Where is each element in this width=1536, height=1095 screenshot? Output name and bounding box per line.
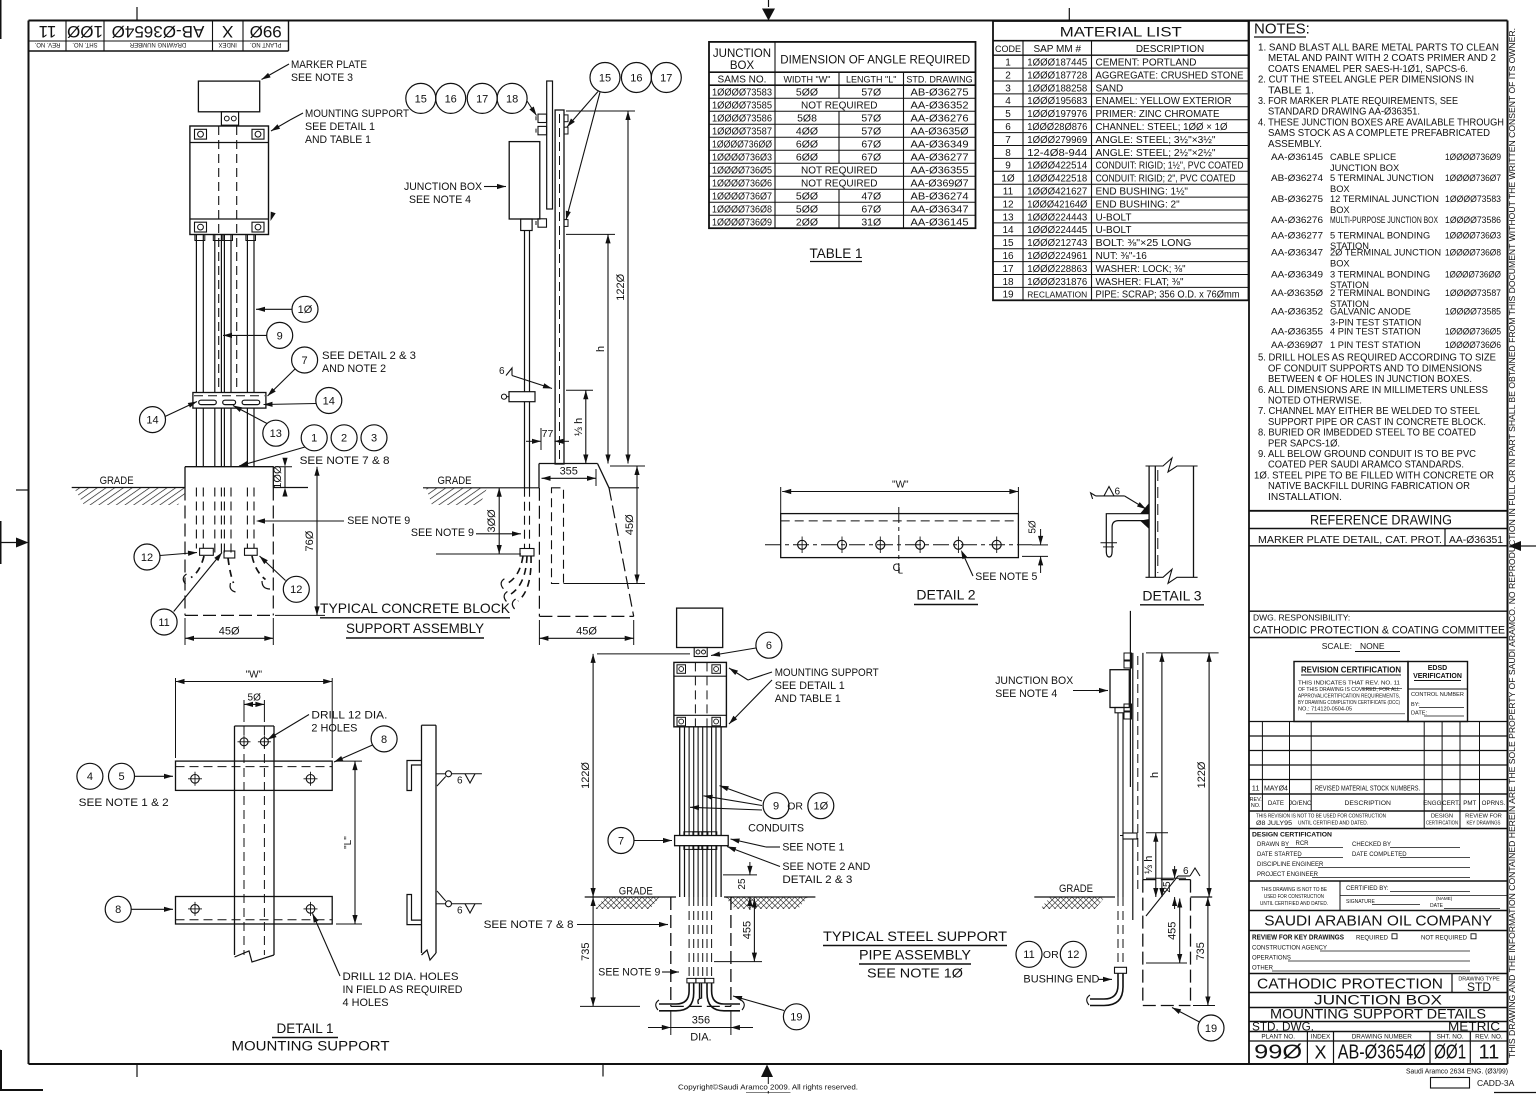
- svg-text:AA-Ø36277: AA-Ø36277: [911, 152, 969, 164]
- svg-text:COATS ENAMEL PER SAES-H-1Ø1, S: COATS ENAMEL PER SAES-H-1Ø1, SAPCS-6.: [1268, 64, 1468, 75]
- svg-text:PER SAPCS-1Ø.: PER SAPCS-1Ø.: [1268, 438, 1340, 449]
- svg-text:NOTED OTHERWISE.: NOTED OTHERWISE.: [1268, 396, 1362, 407]
- svg-text:USED FOR CONSTRUCTION: USED FOR CONSTRUCTION: [1264, 894, 1324, 900]
- svg-text:OPERATIONS: OPERATIONS: [1252, 956, 1291, 962]
- svg-text:UNTIL CERTIFIED AND DATED.: UNTIL CERTIFIED AND DATED.: [1298, 821, 1368, 827]
- svg-text:CONDUITS: CONDUITS: [748, 823, 804, 835]
- svg-text:MOUNTING SUPPORT: MOUNTING SUPPORT: [232, 1039, 390, 1054]
- svg-text:8: 8: [115, 904, 121, 916]
- svg-text:h: h: [1149, 772, 1161, 778]
- svg-text:9: 9: [1005, 161, 1011, 172]
- svg-text:5ØØ: 5ØØ: [796, 87, 818, 99]
- svg-text:14: 14: [146, 414, 158, 426]
- svg-text:CATHODIC PROTECTION & COATI: CATHODIC PROTECTION & COATING COMMITTEE: [1253, 625, 1505, 637]
- svg-text:355: 355: [560, 465, 578, 477]
- svg-text:AA-Ø36352: AA-Ø36352: [1271, 307, 1323, 317]
- svg-text:VERIFICATION: VERIFICATION: [1413, 673, 1462, 680]
- svg-text:DRILL 12 DIA.: DRILL 12 DIA.: [311, 710, 387, 722]
- svg-text:455: 455: [741, 921, 753, 939]
- svg-text:SEE NOTE 3: SEE NOTE 3: [291, 72, 353, 84]
- svg-text:AND NOTE 2: AND NOTE 2: [322, 363, 386, 375]
- svg-text:CHANNEL: STEEL; 1ØØ × 1Ø: CHANNEL: STEEL; 1ØØ × 1Ø: [1096, 122, 1228, 133]
- svg-text:1ØØØØ73586: 1ØØØØ73586: [712, 113, 772, 125]
- svg-text:SEE NOTE 9: SEE NOTE 9: [598, 967, 660, 979]
- svg-text:THIS INDICATES THAT REV. NO.: THIS INDICATES THAT REV. NO. 11: [1298, 680, 1400, 686]
- svg-text:NOTES:: NOTES:: [1254, 21, 1310, 38]
- svg-text:PMT: PMT: [1463, 800, 1476, 807]
- svg-text:UNTIL CERTIFIED AND DATED.: UNTIL CERTIFIED AND DATED.: [1260, 901, 1328, 907]
- svg-text:DESCRIPTION: DESCRIPTION: [1344, 800, 1391, 807]
- svg-text:5: 5: [1005, 109, 1011, 120]
- svg-text:5ØØ: 5ØØ: [796, 191, 818, 203]
- svg-text:SEE NOTE 1 & 2: SEE NOTE 1 & 2: [79, 797, 169, 809]
- svg-text:CATHODIC PROTECTION: CATHODIC PROTECTION: [1257, 976, 1443, 993]
- svg-text:CHECKED BY: CHECKED BY: [1352, 842, 1391, 848]
- svg-text:1ØØØ224445: 1ØØØ224445: [1027, 224, 1087, 236]
- svg-text:6: 6: [499, 366, 505, 377]
- svg-text:5Ø: 5Ø: [1028, 520, 1039, 534]
- svg-text:1ØØØØ736Ø8: 1ØØØØ736Ø8: [1445, 248, 1501, 258]
- svg-text:SUPPORT PIPE OR CAST IN CONCRE: SUPPORT PIPE OR CAST IN CONCRETE BLOCK.: [1268, 417, 1486, 428]
- svg-text:1ØØØ188258: 1ØØØ188258: [1027, 82, 1087, 94]
- svg-text:2. CUT THE STEEL ANGLE PER DIM: 2. CUT THE STEEL ANGLE PER DIMENSIONS IN: [1258, 75, 1474, 86]
- svg-text:AA-Ø36349: AA-Ø36349: [1271, 270, 1323, 280]
- svg-text:4 HOLES: 4 HOLES: [343, 997, 389, 1009]
- svg-text:REV. NO.: REV. NO.: [34, 41, 60, 47]
- svg-text:NO.: 714120-0504-05: NO.: 714120-0504-05: [1298, 707, 1352, 713]
- svg-text:25: 25: [737, 878, 748, 890]
- svg-text:1ØØØ231876: 1ØØØ231876: [1027, 276, 1087, 288]
- svg-text:5 TERMINAL BONDING: 5 TERMINAL BONDING: [1330, 230, 1430, 240]
- svg-text:COATED PER SAUDI ARAMCO STANDA: COATED PER SAUDI ARAMCO STANDARDS.: [1268, 460, 1464, 471]
- svg-text:MOUNTING SUPPORT: MOUNTING SUPPORT: [305, 108, 409, 120]
- svg-text:PIPE: SCRAP; 356 O.D. x 76Ømm: PIPE: SCRAP; 356 O.D. x 76Ømm: [1096, 290, 1240, 301]
- svg-text:12: 12: [1067, 949, 1079, 961]
- svg-text:INDEX: INDEX: [1311, 1034, 1331, 1041]
- svg-text:1ØØ: 1ØØ: [272, 465, 284, 489]
- svg-text:AA-Ø36347: AA-Ø36347: [1271, 248, 1323, 258]
- svg-text:12 TERMINAL JUNCTION: 12 TERMINAL JUNCTION: [1330, 194, 1439, 204]
- svg-text:THIS DRAWING IS NOT TO BE: THIS DRAWING IS NOT TO BE: [1261, 887, 1327, 893]
- svg-text:THIS DRAWING AND THE INFORMATI: THIS DRAWING AND THE INFORMATION CONTAIN…: [1507, 28, 1517, 1058]
- svg-text:JUNCTION BOX: JUNCTION BOX: [995, 675, 1074, 687]
- svg-text:7: 7: [302, 355, 308, 367]
- svg-text:7: 7: [1005, 135, 1011, 146]
- svg-text:1ØØØ228863: 1ØØØ228863: [1027, 263, 1087, 275]
- svg-text:1ØØØØ73585: 1ØØØØ73585: [1445, 307, 1501, 317]
- svg-text:1ØØØØ736Ø7: 1ØØØØ736Ø7: [1445, 173, 1501, 183]
- svg-text:2: 2: [341, 433, 347, 445]
- svg-text:SHT. NO.: SHT. NO.: [1437, 1034, 1464, 1041]
- svg-text:TABLE 1.: TABLE 1.: [1268, 85, 1314, 96]
- svg-text:DESIGN: DESIGN: [1431, 814, 1453, 820]
- svg-text:DATE:: DATE:: [1411, 711, 1428, 717]
- svg-text:CONSTRUCTION AGENCY: CONSTRUCTION AGENCY: [1252, 946, 1327, 952]
- svg-text:SAND: SAND: [1096, 83, 1124, 94]
- svg-text:AA-Ø36347: AA-Ø36347: [911, 204, 969, 216]
- svg-text:DRAWING NUMBER: DRAWING NUMBER: [129, 41, 186, 47]
- svg-text:14: 14: [323, 395, 335, 407]
- svg-text:GALVANIC ANODE: GALVANIC ANODE: [1330, 307, 1411, 317]
- svg-text:MOUNTING SUPPORT: MOUNTING SUPPORT: [775, 667, 879, 679]
- svg-text:U-BOLT: U-BOLT: [1096, 212, 1132, 223]
- svg-text:1ØØ: 1ØØ: [67, 22, 103, 41]
- svg-text:2 HOLES: 2 HOLES: [311, 723, 357, 735]
- svg-text:11: 11: [1023, 949, 1034, 961]
- svg-text:DRAWN BY: DRAWN BY: [1257, 842, 1289, 848]
- svg-text:OR: OR: [787, 801, 803, 813]
- svg-text:BOX: BOX: [1330, 258, 1350, 268]
- svg-text:AA-Ø36276: AA-Ø36276: [1271, 215, 1323, 225]
- svg-text:RECLAMATION: RECLAMATION: [1027, 290, 1087, 300]
- svg-text:ENAMEL: YELLOW EXTERIOR: ENAMEL: YELLOW EXTERIOR: [1096, 96, 1232, 107]
- svg-text:BOLT: ⅜"×25 LONG: BOLT: ⅜"×25 LONG: [1096, 238, 1192, 249]
- svg-text:NONE: NONE: [1360, 641, 1385, 651]
- svg-text:SEE NOTE 4: SEE NOTE 4: [995, 688, 1057, 700]
- svg-text:3ØØ: 3ØØ: [486, 509, 498, 533]
- svg-text:25: 25: [1162, 881, 1173, 893]
- svg-text:45Ø: 45Ø: [219, 625, 240, 637]
- svg-text:BUSHING END: BUSHING END: [1023, 974, 1099, 986]
- svg-text:67Ø: 67Ø: [861, 204, 881, 216]
- svg-text:OR: OR: [1043, 949, 1059, 961]
- svg-text:1ØØØØ736Ø3: 1ØØØØ736Ø3: [712, 152, 772, 164]
- svg-text:4ØØ: 4ØØ: [796, 126, 818, 138]
- svg-text:SEE NOTE 7 & 8: SEE NOTE 7 & 8: [484, 919, 574, 931]
- svg-text:DATE STARTED: DATE STARTED: [1257, 852, 1302, 858]
- svg-text:U-BOLT: U-BOLT: [1096, 225, 1132, 236]
- svg-text:PLANT NO.: PLANT NO.: [250, 41, 282, 47]
- svg-text:MAYØ4: MAYØ4: [1264, 786, 1288, 793]
- svg-text:THIS REVISION IS NOT TO BE USE: THIS REVISION IS NOT TO BE USED FOR CONS…: [1256, 814, 1386, 820]
- svg-text:4: 4: [87, 771, 93, 783]
- svg-text:57Ø: 57Ø: [861, 113, 881, 125]
- svg-text:GRADE: GRADE: [619, 886, 653, 898]
- svg-text:1: 1: [1005, 58, 1011, 69]
- svg-text:1ØØØ224443: 1ØØØ224443: [1027, 211, 1087, 223]
- svg-text:WASHER: LOCK; ⅜": WASHER: LOCK; ⅜": [1096, 264, 1186, 275]
- svg-text:1ØØØ279969: 1ØØØ279969: [1027, 134, 1087, 146]
- svg-text:CONTROL NUMBER: CONTROL NUMBER: [1411, 692, 1464, 698]
- svg-text:Saudi Aramco 2634 ENG. (Ø3/99): Saudi Aramco 2634 ENG. (Ø3/99): [1406, 1067, 1508, 1076]
- svg-text:5ØØ: 5ØØ: [796, 204, 818, 216]
- svg-text:L: L: [898, 566, 903, 576]
- svg-text:REV. NO.: REV. NO.: [1475, 1034, 1503, 1041]
- svg-text:9. ALL BELOW GROUND CONDUIT IS: 9. ALL BELOW GROUND CONDUIT IS TO BE PVC: [1258, 449, 1476, 460]
- svg-text:OF THIS DRAWING IS COVERED, FO: OF THIS DRAWING IS COVERED, FOR ALL: [1298, 687, 1400, 693]
- svg-text:IN FIELD AS REQUIRED: IN FIELD AS REQUIRED: [343, 984, 463, 996]
- svg-text:AGGREGATE: CRUSHED STONE: AGGREGATE: CRUSHED STONE: [1096, 70, 1244, 81]
- svg-text:15: 15: [415, 93, 427, 105]
- svg-text:122Ø: 122Ø: [1196, 761, 1208, 788]
- svg-text:MARKER PLATE: MARKER PLATE: [291, 59, 367, 71]
- svg-text:19: 19: [1205, 1023, 1217, 1035]
- svg-text:4: 4: [1005, 96, 1011, 107]
- svg-text:12: 12: [290, 584, 302, 596]
- svg-text:TYPICAL STEEL SUPPORT: TYPICAL STEEL SUPPORT: [823, 928, 1007, 944]
- svg-text:1ØØØ187728: 1ØØØ187728: [1027, 69, 1087, 81]
- svg-text:1ØØØ422514: 1ØØØ422514: [1027, 160, 1087, 172]
- svg-text:PRIMER: ZINC CHROMATE: PRIMER: ZINC CHROMATE: [1096, 109, 1220, 120]
- svg-text:GRADE: GRADE: [438, 475, 472, 487]
- svg-text:15: 15: [1002, 238, 1014, 249]
- svg-text:1ØØØØ736Ø6: 1ØØØØ736Ø6: [712, 178, 772, 190]
- svg-text:DETAIL 2 & 3: DETAIL 2 & 3: [782, 874, 852, 886]
- svg-text:1 PIN TEST STATION: 1 PIN TEST STATION: [1330, 340, 1421, 350]
- svg-text:WIDTH "W": WIDTH "W": [784, 74, 831, 84]
- svg-text:"W": "W": [892, 480, 909, 491]
- svg-text:SEE NOTE 4: SEE NOTE 4: [409, 194, 471, 206]
- svg-text:3: 3: [1005, 83, 1011, 94]
- svg-text:77: 77: [542, 428, 554, 440]
- svg-text:SHT. NO.: SHT. NO.: [72, 41, 98, 47]
- svg-text:GRADE: GRADE: [1059, 883, 1093, 895]
- svg-text:1ØØØØ73583: 1ØØØØ73583: [712, 87, 772, 99]
- svg-text:ANGLE: STEEL; 3½"×3½": ANGLE: STEEL; 3½"×3½": [1096, 135, 1216, 146]
- svg-text:1ØØØ28Ø876: 1ØØØ28Ø876: [1027, 121, 1087, 133]
- svg-text:SEE DETAIL 1: SEE DETAIL 1: [775, 680, 845, 692]
- svg-text:SEE NOTE 7 & 8: SEE NOTE 7 & 8: [300, 455, 390, 467]
- svg-text:6: 6: [457, 906, 463, 917]
- svg-text:AA-Ø36145: AA-Ø36145: [1271, 152, 1323, 162]
- svg-text:NOT REQUIRED: NOT REQUIRED: [801, 179, 878, 190]
- svg-text:CABLE SPLICE: CABLE SPLICE: [1330, 152, 1396, 162]
- svg-text:DETAIL 1: DETAIL 1: [276, 1021, 333, 1036]
- svg-text:REVISED MATERIAL STOCK NUMBERS: REVISED MATERIAL STOCK NUMBERS.: [1315, 786, 1420, 793]
- svg-text:GRADE: GRADE: [100, 475, 134, 487]
- svg-text:AB-Ø36275: AB-Ø36275: [1271, 194, 1323, 204]
- svg-text:REVIEW FOR: REVIEW FOR: [1465, 814, 1502, 820]
- svg-text:h: h: [595, 346, 607, 352]
- svg-text:ENGG.: ENGG.: [1423, 800, 1443, 807]
- svg-text:AA-Ø36351: AA-Ø36351: [1449, 534, 1503, 546]
- svg-text:5: 5: [118, 771, 124, 783]
- svg-text:1Ø: 1Ø: [1001, 174, 1015, 185]
- svg-text:11: 11: [1252, 784, 1260, 793]
- svg-text:REFERENCE DRAWING: REFERENCE DRAWING: [1310, 512, 1452, 527]
- svg-text:57Ø: 57Ø: [861, 126, 881, 138]
- svg-text:16: 16: [630, 72, 642, 84]
- svg-text:13: 13: [270, 428, 282, 440]
- svg-text:47Ø: 47Ø: [861, 191, 881, 203]
- svg-text:18: 18: [506, 93, 518, 105]
- svg-text:X: X: [222, 22, 233, 41]
- svg-text:8. BURIED OR IMBEDDED STEEL TO: 8. BURIED OR IMBEDDED STEEL TO BE COATED: [1258, 428, 1476, 439]
- svg-text:DIA.: DIA.: [690, 1031, 711, 1043]
- svg-text:REQUIRED: REQUIRED: [1356, 935, 1389, 942]
- svg-text:AA-Ø36355: AA-Ø36355: [911, 165, 969, 177]
- svg-text:1Ø: 1Ø: [813, 801, 828, 813]
- svg-text:45Ø: 45Ø: [576, 625, 597, 637]
- svg-text:1ØØØØ736Ø3: 1ØØØØ736Ø3: [1445, 230, 1501, 240]
- svg-text:6ØØ: 6ØØ: [796, 139, 818, 151]
- svg-text:7. CHANNEL MAY EITHER BE WELDE: 7. CHANNEL MAY EITHER BE WELDED TO STEEL: [1258, 406, 1481, 417]
- svg-text:11: 11: [39, 22, 57, 41]
- svg-text:JUNCTION: JUNCTION: [713, 48, 771, 60]
- svg-text:17: 17: [1002, 264, 1014, 275]
- svg-text:5Ø: 5Ø: [248, 692, 262, 703]
- svg-text:BOX: BOX: [1330, 205, 1350, 215]
- svg-text:NUT: ⅜"-16: NUT: ⅜"-16: [1096, 251, 1148, 262]
- svg-text:99Ø: 99Ø: [1254, 1042, 1302, 1064]
- svg-text:CODE: CODE: [995, 44, 1021, 54]
- svg-text:AB-Ø3654Ø: AB-Ø3654Ø: [1338, 1042, 1426, 1064]
- svg-text:BOX: BOX: [730, 60, 755, 72]
- svg-text:1ØØØ421627: 1ØØØ421627: [1027, 186, 1087, 198]
- svg-text:12: 12: [1002, 199, 1014, 210]
- svg-text:1ØØØØ736Ø9: 1ØØØØ736Ø9: [712, 217, 772, 229]
- svg-text:BETWEEN ¢ OF HOLES IN JUNCTION: BETWEEN ¢ OF HOLES IN JUNCTION BOXES.: [1268, 374, 1472, 385]
- svg-text:CADD-3A: CADD-3A: [1477, 1078, 1515, 1088]
- svg-text:SUPPORT ASSEMBLY: SUPPORT ASSEMBLY: [346, 620, 485, 636]
- svg-text:NO.: NO.: [1251, 803, 1261, 809]
- svg-text:6: 6: [1005, 122, 1011, 133]
- svg-text:1ØØØØ736ØØ: 1ØØØØ736ØØ: [1445, 270, 1501, 280]
- svg-text:356: 356: [692, 1014, 710, 1026]
- svg-text:1ØØØØ736Ø6: 1ØØØØ736Ø6: [1445, 340, 1501, 350]
- svg-text:KEY DRAWINGS: KEY DRAWINGS: [1467, 821, 1501, 827]
- svg-text:SAUDI ARABIAN OIL COMPANY: SAUDI ARABIAN OIL COMPANY: [1264, 914, 1492, 930]
- svg-text:REVISION CERTIFICATION: REVISION CERTIFICATION: [1301, 666, 1401, 675]
- svg-text:16: 16: [445, 93, 457, 105]
- svg-text:735: 735: [1195, 942, 1207, 960]
- svg-text:AA-Ø36349: AA-Ø36349: [911, 139, 969, 151]
- svg-text:ØØ1: ØØ1: [1434, 1042, 1466, 1064]
- svg-text:13: 13: [1002, 212, 1014, 223]
- svg-text:STANDARD DRAWING AA-Ø36351.: STANDARD DRAWING AA-Ø36351.: [1268, 107, 1420, 118]
- svg-text:11: 11: [1003, 187, 1014, 198]
- svg-text:NATIVE BACKFILL DURING FABRICA: NATIVE BACKFILL DURING FABRICATION OR: [1268, 481, 1470, 492]
- svg-text:7: 7: [618, 835, 624, 847]
- svg-text:DESIGN CERTIFICATION: DESIGN CERTIFICATION: [1252, 832, 1332, 839]
- svg-text:18: 18: [1002, 277, 1014, 288]
- svg-text:DWG. RESPONSIBILITY:: DWG. RESPONSIBILITY:: [1253, 613, 1350, 623]
- svg-text:15: 15: [599, 72, 611, 84]
- svg-text:AA-Ø36352: AA-Ø36352: [911, 100, 969, 112]
- svg-text:SEE NOTE 9: SEE NOTE 9: [347, 515, 410, 527]
- svg-text:END BUSHING: 1½": END BUSHING: 1½": [1096, 187, 1189, 198]
- svg-text:AB-Ø36275: AB-Ø36275: [911, 87, 969, 99]
- svg-text:67Ø: 67Ø: [861, 139, 881, 151]
- svg-text:9: 9: [773, 801, 779, 813]
- svg-text:17: 17: [660, 72, 672, 84]
- svg-text:SEE NOTE 5: SEE NOTE 5: [975, 571, 1037, 583]
- svg-text:6. ALL DIMENSIONS ARE IN MILLI: 6. ALL DIMENSIONS ARE IN MILLIMETERS UNL…: [1258, 385, 1488, 396]
- svg-text:99Ø: 99Ø: [250, 22, 282, 41]
- svg-text:AB-Ø36274: AB-Ø36274: [1271, 173, 1323, 183]
- svg-text:Ø8 JULY95: Ø8 JULY95: [1256, 820, 1292, 827]
- svg-text:1ØØØ197976: 1ØØØ197976: [1027, 108, 1087, 120]
- svg-text:455: 455: [1167, 922, 1179, 940]
- svg-text:WASHER: FLAT; ⅜": WASHER: FLAT; ⅜": [1096, 277, 1184, 288]
- svg-text:AB-Ø36274: AB-Ø36274: [911, 191, 969, 203]
- svg-text:1ØØØØ73587: 1ØØØØ73587: [1445, 288, 1501, 298]
- svg-text:17: 17: [476, 93, 488, 105]
- svg-text:3 TERMINAL BONDING: 3 TERMINAL BONDING: [1330, 270, 1430, 280]
- svg-text:67Ø: 67Ø: [861, 152, 881, 164]
- svg-text:⅓ h: ⅓ h: [1143, 856, 1155, 874]
- svg-text:5Ø8: 5Ø8: [797, 113, 817, 125]
- svg-text:1Ø: 1Ø: [298, 304, 313, 316]
- svg-text:8: 8: [381, 734, 387, 746]
- svg-text:DRAWING NUMBER: DRAWING NUMBER: [1352, 1034, 1413, 1041]
- svg-text:CONDUIT: RIGID; 2", PVC COATED: CONDUIT: RIGID; 2", PVC COATED: [1096, 174, 1236, 185]
- svg-text:DRILL 12 DIA. HOLES: DRILL 12 DIA. HOLES: [343, 971, 459, 983]
- svg-text:END BUSHING: 2": END BUSHING: 2": [1096, 199, 1181, 210]
- svg-text:LENGTH "L": LENGTH "L": [846, 74, 896, 84]
- svg-text:AA-Ø3635Ø: AA-Ø3635Ø: [911, 126, 969, 138]
- svg-text:REVIEW FOR KEY DRAWINGS: REVIEW FOR KEY DRAWINGS: [1252, 935, 1344, 942]
- svg-text:1: 1: [311, 433, 317, 445]
- svg-text:1. SAND BLAST ALL BARE METAL P: 1. SAND BLAST ALL BARE METAL PARTS TO CL…: [1258, 43, 1499, 54]
- svg-text:NOT REQUIRED: NOT REQUIRED: [801, 166, 878, 177]
- svg-text:SAMS STOCK AS A COMPLETE PREF: SAMS STOCK AS A COMPLETE PREFABRICATED: [1268, 128, 1490, 139]
- svg-text:STD. DRAWING: STD. DRAWING: [906, 74, 972, 84]
- svg-text:MOUNTING SUPPORT DETAILS: MOUNTING SUPPORT DETAILS: [1270, 1006, 1486, 1022]
- svg-text:MULTI-PURPOSE JUNCTION BOX: MULTI-PURPOSE JUNCTION BOX: [1330, 215, 1438, 225]
- svg-text:SCALE:: SCALE:: [1322, 641, 1352, 651]
- svg-text:METAL AND PAINT WITH 2 COATS P: METAL AND PAINT WITH 2 COATS PRIMER AND …: [1268, 53, 1496, 64]
- svg-text:2Ø TERMINAL JUNCTION: 2Ø TERMINAL JUNCTION: [1330, 248, 1441, 258]
- svg-text:TABLE 1: TABLE 1: [809, 246, 862, 261]
- svg-text:OF CONDUIT SUPPORTS AND TO DI: OF CONDUIT SUPPORTS AND TO DIMENSIONS: [1268, 363, 1482, 374]
- svg-text:735: 735: [580, 943, 592, 961]
- svg-text:1ØØØØ736Ø5: 1ØØØØ736Ø5: [712, 165, 772, 177]
- svg-text:1ØØØØ736Ø9: 1ØØØØ736Ø9: [1445, 152, 1501, 162]
- svg-text:DESCRIPTION: DESCRIPTION: [1136, 44, 1204, 55]
- svg-text:31Ø: 31Ø: [861, 217, 881, 229]
- svg-text:RCR: RCR: [1296, 841, 1310, 847]
- svg-text:AND TABLE 1: AND TABLE 1: [305, 134, 371, 146]
- svg-text:APPROVAL/CERTIFICATION REQUIRE: APPROVAL/CERTIFICATION REQUIREMENTS,: [1298, 694, 1400, 700]
- svg-text:9: 9: [277, 330, 283, 342]
- svg-text:1ØØØ187445: 1ØØØ187445: [1027, 57, 1087, 69]
- svg-text:57Ø: 57Ø: [861, 87, 881, 99]
- svg-text:AA-Ø369Ø7: AA-Ø369Ø7: [1271, 340, 1323, 350]
- svg-text:JUNCTION BOX: JUNCTION BOX: [404, 181, 483, 193]
- svg-text:⅓ h: ⅓ h: [573, 418, 585, 436]
- svg-text:EDSD: EDSD: [1428, 665, 1447, 672]
- svg-text:11: 11: [158, 617, 169, 629]
- svg-text:122Ø: 122Ø: [580, 762, 592, 789]
- svg-text:SEE NOTE 9: SEE NOTE 9: [411, 527, 474, 539]
- svg-text:DATE COMPLETED: DATE COMPLETED: [1352, 852, 1407, 858]
- svg-text:76Ø: 76Ø: [304, 530, 316, 551]
- svg-text:DETAIL 3: DETAIL 3: [1142, 587, 1201, 603]
- svg-text:6: 6: [457, 776, 463, 787]
- svg-text:1Ø. STEEL PIPE TO BE FILLED WI: 1Ø. STEEL PIPE TO BE FILLED WITH CONCRET…: [1254, 470, 1494, 481]
- svg-text:1ØØØØ73583: 1ØØØØ73583: [1445, 194, 1501, 204]
- svg-text:1ØØØØ73587: 1ØØØØ73587: [712, 126, 772, 138]
- svg-text:1ØØØØ73585: 1ØØØØ73585: [712, 100, 772, 112]
- svg-text:DISCIPLINE ENGINEER: DISCIPLINE ENGINEER: [1257, 862, 1324, 868]
- svg-text:3. FOR MARKER PLATE REQUIREMEN: 3. FOR MARKER PLATE REQUIREMENTS, SEE: [1258, 96, 1458, 107]
- svg-text:1ØØØØ73586: 1ØØØØ73586: [1445, 215, 1501, 225]
- svg-text:2 TERMINAL BONDING: 2 TERMINAL BONDING: [1330, 288, 1430, 298]
- svg-text:1ØØØ212743: 1ØØØ212743: [1027, 237, 1087, 249]
- svg-text:AA-Ø36276: AA-Ø36276: [911, 113, 969, 125]
- svg-text:MATERIAL LIST: MATERIAL LIST: [1060, 25, 1182, 40]
- svg-text:AA-Ø36355: AA-Ø36355: [1271, 327, 1323, 337]
- svg-text:45Ø: 45Ø: [624, 514, 636, 535]
- svg-text:SEE NOTE 2 AND: SEE NOTE 2 AND: [782, 861, 870, 873]
- svg-text:DIMENSION OF ANGLE REQUIRED: DIMENSION OF ANGLE REQUIRED: [780, 55, 970, 67]
- svg-text:1ØØØØ736Ø5: 1ØØØØ736Ø5: [1445, 327, 1501, 337]
- svg-text:SEE DETAIL 2 & 3: SEE DETAIL 2 & 3: [322, 350, 416, 362]
- svg-text:OTHER: OTHER: [1252, 966, 1274, 972]
- svg-text:122Ø: 122Ø: [615, 273, 627, 300]
- svg-text:SEE DETAIL 1: SEE DETAIL 1: [305, 121, 375, 133]
